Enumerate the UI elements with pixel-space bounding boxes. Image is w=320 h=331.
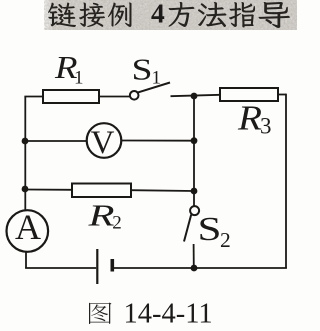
wire left to voltmeter [25,140,86,142]
wire middle vertical (top junction to S2) [193,96,195,206]
voltmeter V1 circle [87,123,122,158]
wire R2 to S2 junction [131,189,194,192]
wire S2 to bottom junction [193,244,195,268]
resistor R1 [43,90,99,103]
svg-text:14-4-11: 14-4-11 [124,299,213,330]
ammeter A1 circle [7,210,49,252]
wire S1 to node junction [171,95,221,96]
svg-text:V: V [91,125,115,161]
svg-text:S: S [132,52,153,87]
wire ammeter to bottom corner [25,252,27,268]
resistor R2 [72,184,131,198]
switch S2 contact circle [190,206,199,215]
svg-text:1: 1 [152,68,162,89]
node dot top junction [191,93,198,100]
title char 链 [48,2,76,27]
node dot left voltmeter junction [22,138,29,145]
wire battery to bottom right corner [114,267,287,269]
title char 接 [79,2,105,27]
node dot S2 top junction [191,188,198,195]
wire bottom left (corner to battery) [25,267,96,269]
title char 导 [259,2,290,28]
svg-text:R: R [87,198,114,233]
node dot middle voltmeter junction [191,137,198,144]
caption char 图 [89,302,112,323]
wire top row left (corner to R1) [24,96,43,98]
svg-text:S: S [198,211,222,248]
switch S2 lever [184,215,191,242]
svg-text:3: 3 [260,114,272,139]
battery short plate (negative) [111,259,115,272]
wire R1 to switch S1 [99,96,130,98]
wire left vertical (top corner to ammeter) [24,97,26,212]
switch S1 lever [138,83,170,93]
node dot bottom junction [191,265,198,272]
svg-text:A: A [15,207,41,247]
switch S1 contact circle [130,91,139,100]
wire R3 to right corner [278,94,286,96]
svg-text:2: 2 [112,213,122,234]
title char 方 [168,2,194,27]
title char 法 [198,2,227,27]
title char 例 [108,3,132,28]
wire left to R2 [25,189,72,191]
wire right vertical [285,94,287,268]
title char 指 [229,2,255,27]
resistor R3 [220,88,278,101]
title background band [44,0,297,30]
node dot left R2 junction [22,186,29,193]
wire voltmeter to middle vertical [121,140,194,142]
svg-text:1: 1 [74,68,84,89]
svg-text:4: 4 [151,0,165,29]
svg-text:2: 2 [220,228,231,252]
battery long plate (positive) [96,249,98,284]
svg-text:R: R [237,99,262,138]
